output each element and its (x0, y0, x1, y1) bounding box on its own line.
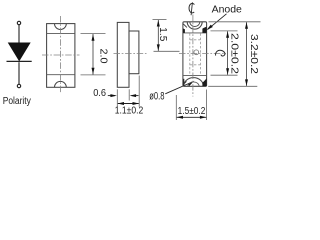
view C top-right electrode fill (anode mark) (202, 27, 206, 33)
dimension 0.6 right arrow (132, 95, 139, 97)
view B electrode tab (129, 31, 139, 74)
view A body outline (47, 24, 75, 88)
anode wire (18, 25, 20, 43)
dimension 3.2±0.2 extension lines (209, 21, 261, 23)
cathode terminal circle (17, 84, 20, 87)
dimension 1.1 line (118, 103, 139, 105)
view C vertical centerline (192, 15, 194, 97)
svg-text:Polarity: Polarity (3, 96, 31, 107)
dimension 2.0 line (92, 34, 94, 75)
view C top electrode outer arc (187, 22, 202, 29)
view C hidden ledge upper (190, 39, 201, 41)
dimension 2.0 arrowheads (92, 34, 95, 41)
view C bottom electrode outer arc (184, 78, 204, 87)
anode leader line (208, 14, 227, 29)
dimension 0.6 extension bars (116, 89, 118, 107)
view C bottom-left electrode fill (183, 79, 185, 86)
svg-text:3.2±0.2: 3.2±0.2 (248, 34, 259, 74)
svg-text:0.6: 0.6 (93, 88, 106, 99)
svg-text:Anode: Anode (212, 5, 243, 16)
dimension 0.6 left arrow (108, 95, 115, 97)
view C top seam (183, 32, 207, 34)
dimension 2.0±0.2 line (227, 31, 229, 75)
view B slab outline (117, 22, 139, 87)
dimension 3.2±0.2 line (246, 22, 248, 86)
svg-text:1.1±0.2: 1.1±0.2 (115, 105, 144, 116)
view B horizontal centerline (114, 53, 147, 55)
svg-text:2.0: 2.0 (97, 49, 108, 64)
dimension 1.5 extension line top (153, 19, 167, 21)
view C hidden hole wall right (199, 33, 201, 75)
anode terminal circle (17, 21, 20, 24)
view C hidden hole wall left (189, 33, 191, 75)
cathode wire (18, 62, 20, 84)
view C body outline (183, 22, 207, 87)
centerline symbol top (189, 3, 194, 13)
diode triangle (9, 43, 30, 60)
dimension 2.0 extension lines (81, 34, 106, 75)
svg-text:ø0.8: ø0.8 (149, 91, 164, 103)
diode polarity symbol D1 (7, 21, 32, 87)
view C bottom-left corner tick (183, 81, 186, 84)
svg-text:1.5: 1.5 (157, 27, 168, 41)
view C hidden ledge lower (190, 64, 201, 66)
view C bottom electrode inner arc (188, 82, 199, 86)
view A bottom seam (47, 74, 75, 76)
cathode bar (7, 60, 32, 62)
view C horizontal centerline (179, 52, 226, 54)
dimension 1.1 extension bar right (138, 76, 140, 107)
leader line for ø0.8 (165, 82, 192, 94)
view C bottom-right electrode fill (202, 78, 206, 86)
view A top seam (47, 33, 75, 35)
dimension 1.5 extension line bottom (154, 50, 180, 52)
dimension 1.5±0.2 extension bars (175, 95, 177, 120)
dimension 2.0±0.2 extension lines (211, 30, 238, 32)
view C top-left electrode fill (183, 28, 185, 33)
dimension 1.5 line (157, 20, 159, 51)
view A horizontal centerline (42, 54, 80, 56)
view C top electrode inner arc (190, 22, 200, 27)
view C top-left corner tick (183, 24, 187, 28)
centerline symbol right (216, 50, 225, 56)
view C bottom seam (183, 74, 207, 76)
view A vertical centerline (59, 16, 61, 94)
view A top notch arc (55, 24, 67, 30)
view A bottom notch arc (55, 81, 67, 87)
svg-text:2.0±0.2: 2.0±0.2 (229, 33, 240, 74)
svg-text:1.5±0.2: 1.5±0.2 (178, 106, 206, 117)
view C chip circle (194, 50, 199, 55)
dimension 1.5±0.2 line (177, 116, 207, 118)
